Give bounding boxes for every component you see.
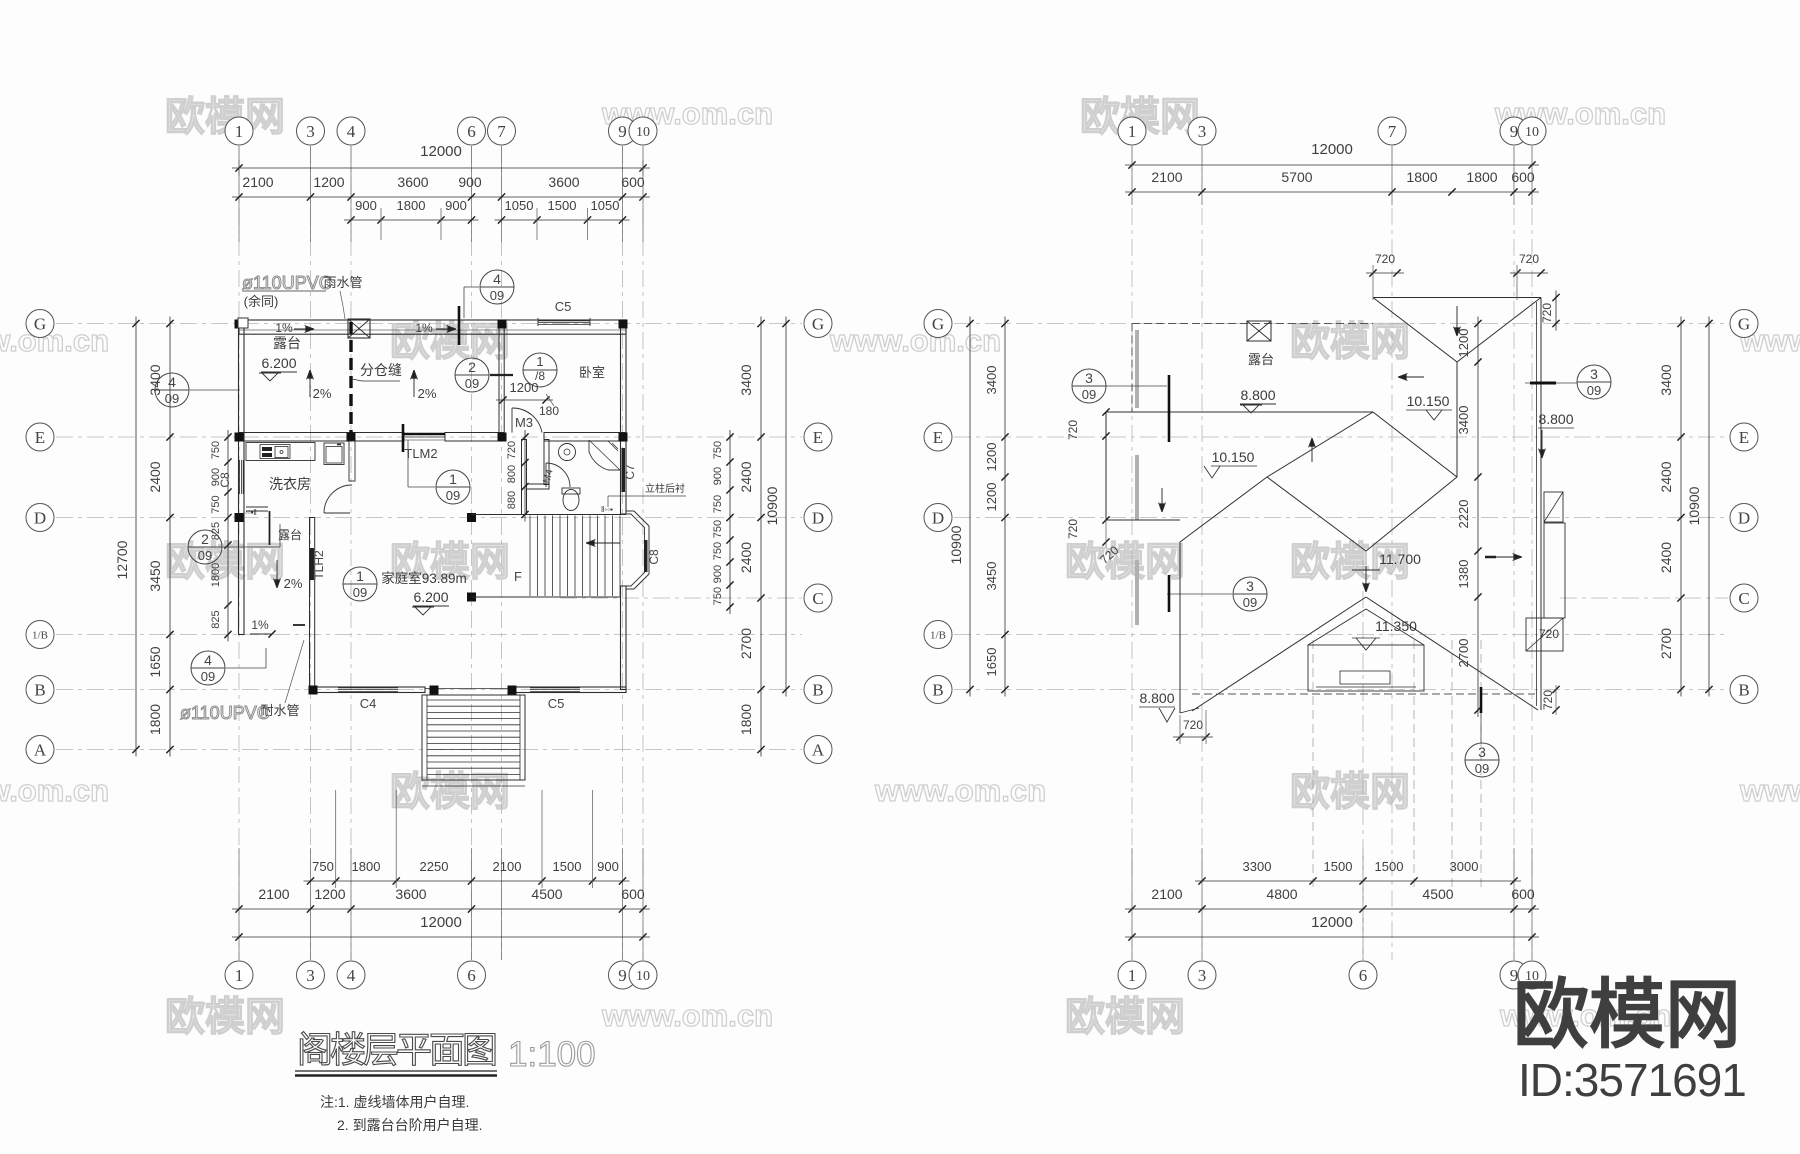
bathroom sink (559, 444, 576, 461)
svg-text:2700: 2700 (1456, 639, 1471, 668)
bathroom partition walls (522, 440, 527, 515)
svg-text:720: 720 (1540, 303, 1554, 323)
svg-text:720: 720 (1539, 627, 1559, 641)
svg-text:3: 3 (1198, 122, 1207, 141)
svg-text:洗衣房: 洗衣房 (269, 476, 311, 492)
svg-text:09: 09 (1243, 595, 1257, 610)
bottom eave dashed (1192, 693, 1535, 695)
window C5 top (538, 320, 590, 322)
svg-text:◦◦▪‖: ◦◦▪‖ (245, 508, 257, 517)
laundry appliance (324, 443, 344, 465)
svg-text:1050: 1050 (591, 198, 620, 213)
svg-text:1650: 1650 (147, 646, 163, 677)
svg-text:900: 900 (712, 565, 724, 583)
svg-text:1800: 1800 (1406, 169, 1437, 185)
svg-text:欧模网: 欧模网 (1065, 540, 1185, 584)
svg-text:D: D (812, 508, 824, 527)
expansion joint dashed wall (349, 322, 352, 435)
left plan vertical axis line 1 (238, 146, 240, 960)
svg-text:9: 9 (1510, 122, 1519, 141)
svg-text:D: D (34, 508, 46, 527)
svg-text:G: G (932, 314, 944, 333)
exterior steps (422, 695, 525, 780)
stair landing lines (472, 514, 627, 516)
svg-text:900: 900 (445, 198, 467, 213)
svg-text:2: 2 (468, 359, 476, 375)
svg-text:C5: C5 (548, 696, 565, 711)
svg-text:www.om.cn: www.om.cn (1739, 773, 1800, 808)
svg-text:3: 3 (1590, 366, 1598, 382)
svg-text:600: 600 (621, 174, 645, 190)
columns (235, 320, 244, 329)
svg-text:2250: 2250 (420, 859, 449, 874)
svg-text:1800: 1800 (352, 859, 381, 874)
svg-text:3600: 3600 (395, 886, 426, 902)
right plan top axis circles 1 3 7 9 10 (1118, 117, 1146, 145)
svg-text:750: 750 (712, 441, 724, 459)
svg-text:900: 900 (597, 859, 619, 874)
callout 1/09 at TLM2 (436, 470, 470, 504)
svg-text:11.350: 11.350 (1375, 618, 1417, 634)
svg-text:8.800: 8.800 (1139, 690, 1174, 706)
svg-text:2220: 2220 (1456, 500, 1471, 529)
left plan left axis circles G E D 1/B B A (26, 310, 54, 338)
left plan top dimension 12000 (232, 167, 650, 169)
svg-text:6: 6 (467, 966, 476, 985)
eave overhang dim 720 bottom-left (1173, 736, 1213, 738)
svg-text:3000: 3000 (1450, 859, 1479, 874)
left plan bottom dim extension lines (335, 790, 337, 888)
left plan top gutter wall band (239, 320, 626, 334)
svg-text:2. 到露台台阶用户自理.: 2. 到露台台阶用户自理. (337, 1117, 482, 1133)
interior wall on axis E (239, 433, 404, 442)
svg-text:2400: 2400 (1658, 542, 1674, 573)
svg-text:2100: 2100 (1151, 169, 1182, 185)
svg-text:720: 720 (1519, 252, 1539, 266)
svg-text:720: 720 (506, 441, 518, 459)
left plan bottom dimension row 750 1800 2250 2100 1500 900 (304, 880, 630, 882)
svg-text:4: 4 (168, 374, 176, 390)
svg-text:3400: 3400 (738, 364, 754, 395)
callout 2/09 mid (455, 358, 489, 392)
TLM2 door opening mark (402, 424, 405, 452)
svg-text:F: F (514, 569, 522, 584)
svg-text:750: 750 (210, 441, 222, 459)
dimension 1200 at M3 (496, 399, 553, 401)
svg-text:2100: 2100 (493, 859, 522, 874)
left plan left dimension chain 3400 2400 3450 1650 1800 (169, 317, 171, 757)
right plan left dimension chain 3400 1200 1200 3450 1650 (1004, 317, 1006, 697)
rain outlet X box (348, 319, 370, 338)
svg-text:750: 750 (712, 587, 724, 605)
svg-text:1%: 1% (251, 618, 269, 632)
right plan top dimension row 2100 5700 1800 1800 600 (1125, 191, 1539, 193)
callout 3/09 right (1577, 365, 1611, 399)
svg-text:www.om.cn: www.om.cn (829, 323, 1001, 358)
svg-text:E: E (933, 428, 943, 447)
svg-text:12000: 12000 (1311, 141, 1353, 158)
svg-text:E: E (35, 428, 45, 447)
svg-text:3: 3 (1246, 578, 1254, 594)
svg-text:09: 09 (353, 585, 367, 600)
svg-text:G: G (812, 314, 824, 333)
svg-text:900: 900 (458, 174, 482, 190)
svg-text:2%: 2% (418, 386, 437, 401)
svg-text:3450: 3450 (984, 562, 999, 591)
svg-text:10.150: 10.150 (1212, 449, 1255, 465)
svg-text:10: 10 (636, 125, 650, 140)
right plan right total 10900 (1708, 317, 1710, 697)
svg-text:耐水管: 耐水管 (260, 703, 299, 718)
svg-text:1800: 1800 (210, 563, 222, 587)
svg-text:ø110UPVC: ø110UPVC (180, 703, 270, 723)
right plan vertical axis lines (1131, 146, 1133, 960)
svg-text:8.800: 8.800 (1538, 411, 1573, 427)
svg-text:1380: 1380 (1456, 560, 1471, 589)
right exterior wall upper (621, 320, 627, 514)
svg-text:10: 10 (1525, 125, 1539, 140)
wall left of family room with TLH2 (310, 518, 315, 690)
svg-text:露台: 露台 (273, 335, 301, 351)
svg-text:D: D (932, 508, 944, 527)
svg-text:10.150: 10.150 (1407, 393, 1450, 409)
svg-text:2700: 2700 (1658, 628, 1674, 659)
svg-text:www.om.cn: www.om.cn (874, 773, 1046, 808)
left plan top dim extension lines (380, 208, 382, 240)
laundry counter with sink (246, 443, 315, 461)
svg-text:M3: M3 (515, 415, 533, 430)
svg-text:720: 720 (1375, 252, 1395, 266)
right plan horizontal axis lines (954, 323, 1728, 325)
svg-text:立柱后衬: 立柱后衬 (645, 482, 685, 495)
svg-text:欧模网: 欧模网 (1065, 995, 1185, 1039)
svg-text:880: 880 (506, 491, 518, 509)
svg-text:1800: 1800 (738, 704, 754, 735)
svg-text:雨水管: 雨水管 (323, 275, 362, 290)
svg-text:800: 800 (506, 465, 518, 483)
laundry lower wall segment (349, 441, 355, 481)
svg-text:家庭室93.89m: 家庭室93.89m (381, 570, 467, 586)
right plan extension dashed lines (1312, 640, 1314, 890)
svg-text:4: 4 (204, 652, 212, 668)
svg-text:8.800: 8.800 (1240, 387, 1275, 403)
left plan left inner chain 750 900 750 825 1800 825 (227, 430, 229, 642)
svg-text:1500: 1500 (1375, 859, 1404, 874)
svg-text:1: 1 (1128, 966, 1137, 985)
svg-text:9: 9 (618, 122, 627, 141)
svg-text:C5: C5 (555, 299, 572, 314)
svg-text:1200: 1200 (314, 886, 345, 902)
left eave edge (1106, 411, 1373, 413)
svg-text:4: 4 (347, 122, 356, 141)
right side roof attachments (1544, 492, 1563, 522)
left plan bottom dimension 12000 (232, 936, 650, 938)
svg-text:‖◦◦▪: ‖◦◦▪ (601, 505, 613, 514)
svg-text:G: G (34, 314, 46, 333)
laundry door arc (324, 512, 350, 514)
svg-text:4500: 4500 (531, 886, 562, 902)
svg-text:1: 1 (235, 966, 244, 985)
svg-text:露台: 露台 (1248, 352, 1274, 367)
svg-text:750: 750 (712, 495, 724, 513)
svg-text:3400: 3400 (1456, 406, 1471, 435)
bathroom dim chain 720 800 880 (524, 430, 526, 522)
svg-text:C: C (812, 589, 823, 608)
svg-text:750: 750 (312, 859, 334, 874)
reference circle 1/8 (523, 353, 557, 387)
svg-text:B: B (812, 680, 823, 699)
svg-text:09: 09 (165, 391, 179, 406)
svg-text:1%: 1% (275, 321, 293, 335)
window C8 left wall label (239, 460, 241, 494)
left plan right inner chain 750 900 750 750 750 900 750 (729, 430, 731, 614)
eave overhang dim 720 right vertical (1555, 291, 1557, 331)
left plan right total dimension 10900 (785, 317, 787, 697)
svg-text:4: 4 (493, 271, 501, 287)
svg-text:12000: 12000 (1311, 914, 1353, 931)
left plan top dimension row 900 1800 900 1050 1500 1050 (344, 219, 479, 221)
svg-text:1200: 1200 (984, 483, 999, 512)
dormer (1308, 609, 1366, 645)
left exterior wall (239, 320, 245, 635)
terrace rain outlet X box (1247, 321, 1271, 341)
svg-text:3: 3 (306, 966, 315, 985)
white corner column (238, 318, 248, 328)
roof valley and ridges (1373, 412, 1457, 477)
slope arrow 2% right (413, 370, 415, 397)
svg-text:2%: 2% (284, 576, 303, 591)
svg-text:4500: 4500 (1422, 886, 1453, 902)
left plan bottom dimension row 2100 1200 3600 4500 600 (232, 908, 650, 910)
right plan bottom dimension row 3300 1500 1500 3000 (1195, 880, 1521, 882)
svg-text:600: 600 (1511, 886, 1535, 902)
callout 1/09 family room (343, 567, 377, 601)
lower terrace rail (246, 506, 268, 508)
svg-text:1: 1 (1128, 122, 1137, 141)
svg-text:1: 1 (356, 568, 364, 584)
svg-text:2%: 2% (313, 386, 332, 401)
svg-text:3: 3 (1478, 744, 1486, 760)
svg-text:1500: 1500 (553, 859, 582, 874)
callout 3/09 center (1233, 577, 1267, 611)
svg-text:09: 09 (198, 548, 212, 563)
svg-text:2400: 2400 (1658, 461, 1674, 492)
svg-text:09: 09 (201, 669, 215, 684)
roof slope arrows (1311, 438, 1313, 462)
svg-text:E: E (813, 428, 823, 447)
bathroom door M4 arc (545, 463, 547, 487)
svg-text:A: A (812, 740, 825, 759)
svg-text:1: 1 (235, 122, 244, 141)
bottom hip triangle (1192, 597, 1366, 711)
stair risers (529, 516, 531, 597)
left plan right axis circles G E D C B A (804, 310, 832, 338)
svg-text:1500: 1500 (548, 198, 577, 213)
svg-text:4800: 4800 (1266, 886, 1297, 902)
roof internal dimension chain 1200 3400 2220 1380 2700 (1477, 317, 1479, 718)
bottom exterior wall on axis B (310, 687, 426, 693)
svg-text:D: D (1738, 508, 1750, 527)
svg-text:1%: 1% (415, 321, 433, 335)
svg-text:09: 09 (490, 288, 504, 303)
svg-text:露台: 露台 (278, 527, 302, 542)
svg-text:6: 6 (467, 122, 476, 141)
svg-text:12000: 12000 (420, 914, 462, 931)
svg-text:1800: 1800 (147, 704, 163, 735)
svg-text:G: G (1738, 314, 1750, 333)
window C5 bottom (530, 687, 580, 689)
svg-text:2100: 2100 (258, 886, 289, 902)
svg-text:12000: 12000 (420, 143, 462, 160)
svg-text:1200: 1200 (313, 174, 344, 190)
svg-text:ID:3571691: ID:3571691 (1518, 1054, 1746, 1106)
svg-text:3400: 3400 (1658, 364, 1674, 395)
lower terrace slope 2% (276, 560, 278, 588)
svg-text:5700: 5700 (1281, 169, 1312, 185)
svg-text:6: 6 (1359, 966, 1368, 985)
right plan top dimension 12000 (1125, 164, 1539, 166)
svg-text:7: 7 (1388, 122, 1397, 141)
svg-text:C8: C8 (647, 549, 661, 565)
svg-text:09: 09 (1587, 383, 1601, 398)
terrace dashed boundary (1132, 323, 1373, 325)
svg-text:825: 825 (210, 610, 222, 628)
svg-text:注:1. 虚线墙体用户自理.: 注:1. 虚线墙体用户自理. (320, 1094, 469, 1110)
left plan left total dimension 12700 (135, 317, 137, 757)
window C7 in right wall (622, 448, 626, 492)
svg-text:750: 750 (210, 495, 222, 513)
callout 3/09 left (1072, 369, 1106, 403)
bay window at stair (626, 511, 649, 589)
svg-text:09: 09 (465, 376, 479, 391)
right plan bottom dimension 12000 (1125, 936, 1539, 938)
callout 4/09 lower-left (191, 651, 225, 685)
stair direction arrow (586, 542, 620, 544)
svg-text:www.om.cn: www.om.cn (0, 323, 109, 358)
right plan left total 10900 (969, 317, 971, 697)
svg-text:ø110UPVC: ø110UPVC (242, 273, 332, 293)
svg-text:2400: 2400 (738, 542, 754, 573)
svg-text:900: 900 (712, 467, 724, 485)
section cut tick near axis 7 (458, 306, 461, 345)
svg-text:1: 1 (449, 471, 457, 487)
svg-text:750: 750 (712, 542, 724, 560)
svg-text:12700: 12700 (114, 540, 130, 579)
right exterior wall lower (621, 586, 627, 690)
slope arrow 2% left (309, 370, 311, 397)
left plan bottom axis circles 1 3 4 6 9 10 (225, 961, 253, 989)
svg-text:1/B: 1/B (930, 629, 946, 641)
svg-text:1/B: 1/B (32, 629, 48, 641)
svg-text:C8: C8 (218, 472, 232, 488)
svg-text:TLM2: TLM2 (404, 446, 437, 461)
svg-text:9: 9 (618, 966, 627, 985)
svg-text:C7: C7 (623, 464, 637, 480)
window C4 bottom (338, 687, 398, 689)
svg-text:2400: 2400 (738, 461, 754, 492)
svg-text:3600: 3600 (548, 174, 579, 190)
svg-text:3400: 3400 (984, 366, 999, 395)
svg-text:欧模网: 欧模网 (1513, 973, 1741, 1058)
left eave vertical (1179, 542, 1181, 713)
svg-text:1200: 1200 (510, 380, 539, 395)
svg-text:10: 10 (636, 969, 650, 984)
svg-text:10900: 10900 (1686, 486, 1702, 525)
svg-text:分仓缝: 分仓缝 (360, 362, 402, 378)
svg-text:10900: 10900 (948, 525, 964, 564)
svg-text:600: 600 (621, 886, 645, 902)
svg-text:2700: 2700 (738, 628, 754, 659)
svg-text:720: 720 (1066, 519, 1080, 539)
svg-text:2: 2 (201, 531, 209, 547)
svg-text:180: 180 (539, 404, 559, 418)
svg-text:6.200: 6.200 (261, 355, 296, 371)
svg-text:欧模网: 欧模网 (390, 770, 510, 814)
svg-text:2400: 2400 (147, 461, 163, 492)
svg-text:1800: 1800 (1466, 169, 1497, 185)
svg-text:B: B (1738, 680, 1749, 699)
svg-text:09: 09 (446, 488, 460, 503)
svg-text:1200: 1200 (984, 443, 999, 472)
svg-text:E: E (1739, 428, 1749, 447)
callout 4/09 top (480, 270, 514, 304)
svg-text:6.200: 6.200 (413, 589, 448, 605)
svg-text:A: A (34, 740, 47, 759)
svg-text:2100: 2100 (1151, 886, 1182, 902)
svg-text:B: B (34, 680, 45, 699)
terrace shaded wall segments (1135, 330, 1139, 408)
svg-text:C: C (1738, 589, 1749, 608)
svg-text:(余同): (余同) (244, 294, 279, 309)
svg-text:11.700: 11.700 (1379, 551, 1421, 567)
svg-text:B: B (932, 680, 943, 699)
svg-text:09: 09 (1082, 387, 1096, 402)
svg-text:欧模网: 欧模网 (165, 995, 285, 1039)
left plan right dimension chain 3400 2400 2400 2700 1800 (760, 317, 762, 757)
right plan bottom axis circles 1 3 6 9 10 (1118, 961, 1146, 989)
right roof edge (1540, 298, 1542, 711)
left plan top dimension row 2100 1200 3600 900 3600 600 (232, 196, 650, 198)
interior wall bedroom partition (499, 320, 504, 435)
bathroom shower (589, 440, 620, 470)
svg-text:3: 3 (306, 122, 315, 141)
svg-text:7: 7 (497, 122, 506, 141)
svg-text:09: 09 (1475, 761, 1489, 776)
right plan left axis circles G E D 1/B B (924, 310, 952, 338)
callout 3/09 bottom (1465, 743, 1499, 777)
svg-text:4: 4 (347, 966, 356, 985)
callout 2/09 left (188, 530, 222, 564)
eave overhang dims 720 top (1366, 272, 1404, 274)
svg-text:3600: 3600 (397, 174, 428, 190)
svg-text:1650: 1650 (984, 648, 999, 677)
svg-text:10900: 10900 (764, 486, 780, 525)
svg-text:900: 900 (355, 198, 377, 213)
top-right hip roof block (1373, 297, 1541, 299)
svg-text:3: 3 (1198, 966, 1207, 985)
svg-text:3: 3 (1085, 370, 1093, 386)
svg-text:750: 750 (712, 520, 724, 538)
svg-text:www.om.cn: www.om.cn (601, 998, 773, 1033)
svg-text:600: 600 (1511, 169, 1535, 185)
svg-text:1800: 1800 (397, 198, 426, 213)
svg-text:TLH2: TLH2 (312, 550, 326, 580)
svg-text:1: 1 (536, 354, 543, 369)
svg-text:www.om.cn: www.om.cn (0, 773, 109, 808)
svg-text:C4: C4 (360, 696, 377, 711)
svg-text:2100: 2100 (242, 174, 273, 190)
bathroom toilet (563, 490, 579, 511)
